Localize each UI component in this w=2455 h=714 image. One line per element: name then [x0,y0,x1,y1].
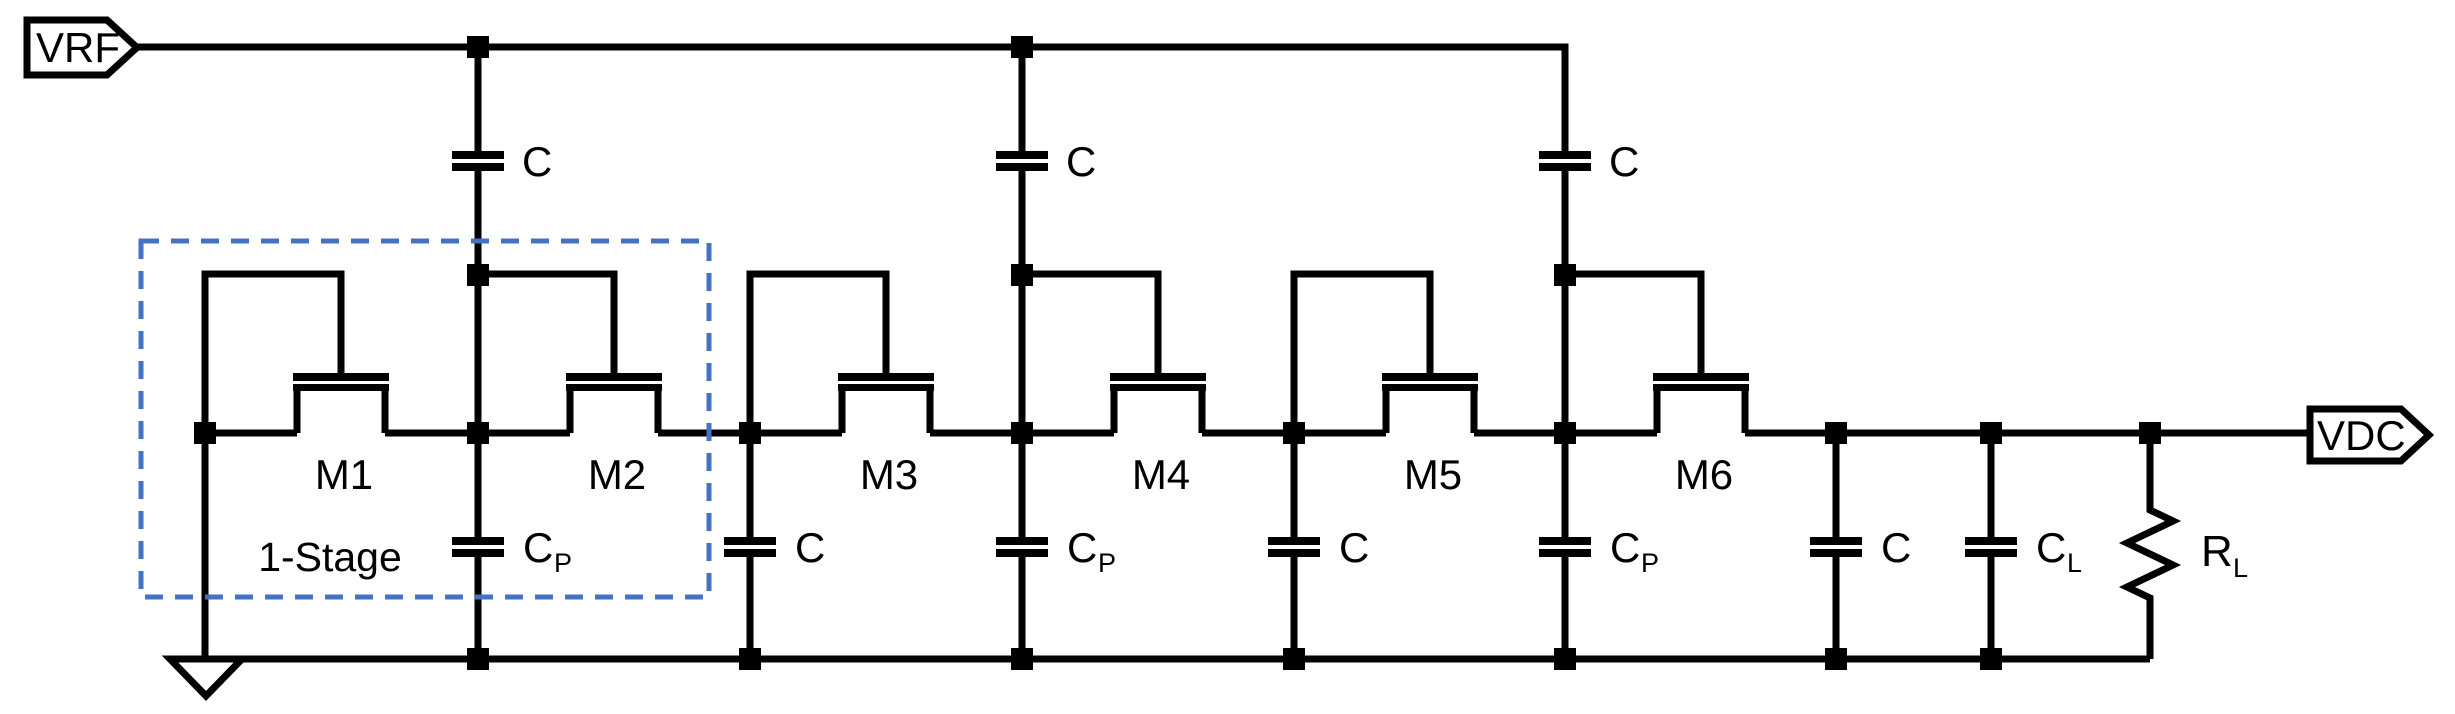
capacitor CP at x=1565 [1539,537,1591,557]
label CP [1610,524,1659,578]
junction mid bus at x=2150 [2139,422,2161,444]
wire capacitor CP bottom to ground bus [475,555,482,659]
wire C3 bottom to bus node [1562,169,1569,433]
svg-text:L: L [2233,553,2248,583]
wire capacitor C bottom to ground bus [1291,555,1298,659]
junction mid bus at x=750 [739,422,761,444]
wire capacitor CP bottom to ground bus [1019,555,1026,659]
svg-text:M4: M4 [1132,451,1190,498]
dashed box 1-Stage [141,241,709,597]
svg-text:C: C [1881,524,1911,571]
wire bus down to capacitor C at x=1836 [1833,433,1840,539]
label CP [523,524,572,578]
svg-text:L: L [2067,548,2082,578]
junction top rail / C2 [1011,36,1033,58]
svg-text:VDC: VDC [2317,412,2406,459]
svg-text:C: C [523,524,553,571]
junction mid bus at x=1565 [1554,422,1576,444]
label CP [1067,524,1116,578]
junction ground bus at x=1565 [1554,648,1576,670]
wire bus down to capacitor CP at x=1022 [1019,433,1026,539]
wire bus down to capacitor CP at x=478 [475,433,482,539]
resistor RL [2127,433,2173,659]
wire capacitor CL bottom to ground bus [1988,555,1995,659]
svg-text:C: C [2036,524,2066,571]
junction mid bus at x=1991 [1980,422,2002,444]
wire C2 bottom to bus node [1019,169,1026,433]
port VDC [2310,409,2429,461]
junction ground bus at x=1294 [1283,648,1305,670]
wire capacitor CP bottom to ground bus [1562,555,1569,659]
transistor M2 (diode-connected NMOS) [478,274,662,433]
svg-text:R: R [2201,527,2233,576]
transistor M3 (diode-connected NMOS) [750,274,934,433]
label RL [2201,527,2248,583]
wire bus down to capacitor C at x=750 [747,433,754,539]
capacitor C2 value C (coupling, stage 3) [996,151,1048,171]
junction mid bus at x=478 [467,422,489,444]
junction gate-loop at x=1565 [1554,264,1576,286]
capacitor CP at x=478 [452,537,504,557]
capacitor C1 value C (coupling, stage 1) [452,151,504,171]
svg-text:C: C [1610,524,1640,571]
svg-text:M1: M1 [315,451,373,498]
transistor M5 (diode-connected NMOS) [1294,274,1478,433]
junction gate-loop at x=1022 [1011,264,1033,286]
junction ground bus at x=1991 [1980,648,2002,670]
svg-text:M5: M5 [1404,451,1462,498]
wire C1 bottom to bus node [475,169,482,433]
junction ground bus at x=478 [467,648,489,670]
svg-text:1-Stage: 1-Stage [258,534,402,580]
capacitor CL at x=1991 [1965,537,2017,557]
junction mid bus at x=1294 [1283,422,1305,444]
wire top rail drop to C1 [475,47,482,153]
transistor M4 (diode-connected NMOS) [1022,274,1206,433]
junction ground bus at x=1022 [1011,648,1033,670]
capacitor C at x=750 [724,537,776,557]
svg-text:VRF: VRF [36,24,120,71]
svg-text:C: C [1609,138,1639,185]
wire bus down to capacitor CL at x=1991 [1988,433,1995,539]
wire bus down to capacitor CP at x=1565 [1562,433,1569,539]
junction ground bus at x=750 [739,648,761,670]
svg-text:C: C [1339,524,1369,571]
svg-text:M2: M2 [588,451,646,498]
svg-text:C: C [795,524,825,571]
port VRF [27,20,137,75]
junction top rail / C1 [467,36,489,58]
svg-text:P: P [554,548,572,578]
svg-text:C: C [522,138,552,185]
wire mid bus segments between transistors [202,430,2310,437]
svg-text:P: P [1098,548,1116,578]
transistor M6 (diode-connected NMOS) [1565,274,1749,433]
wire capacitor C bottom to ground bus [1833,555,1840,659]
capacitor CP at x=1022 [996,537,1048,557]
label CL [2036,524,2082,578]
wire top rail VRF to C3 column [137,47,1565,153]
svg-text:M6: M6 [1675,451,1733,498]
ground symbol [170,659,242,696]
transistor M1 (diode-connected NMOS) [205,274,389,433]
junction mid bus at x=1022 [1011,422,1033,444]
wire ground bus [206,656,2150,663]
capacitor C at x=1294 [1268,537,1320,557]
wire capacitor C bottom to ground bus [747,555,754,659]
wire top rail drop to C2 [1019,47,1026,153]
svg-text:C: C [1067,524,1097,571]
junction mid bus at x=1836 [1825,422,1847,444]
junction ground bus at x=1836 [1825,648,1847,670]
svg-text:M3: M3 [860,451,918,498]
capacitor C at x=1836 [1810,537,1862,557]
capacitor C3 value C (coupling, stage 5) [1539,151,1591,171]
junction gate-loop at x=478 [467,264,489,286]
svg-text:C: C [1066,138,1096,185]
junction mid bus at x=205 [194,422,216,444]
wire bus down to capacitor C at x=1294 [1291,433,1298,539]
svg-text:P: P [1641,548,1659,578]
wire node1 down to ground [202,433,209,659]
